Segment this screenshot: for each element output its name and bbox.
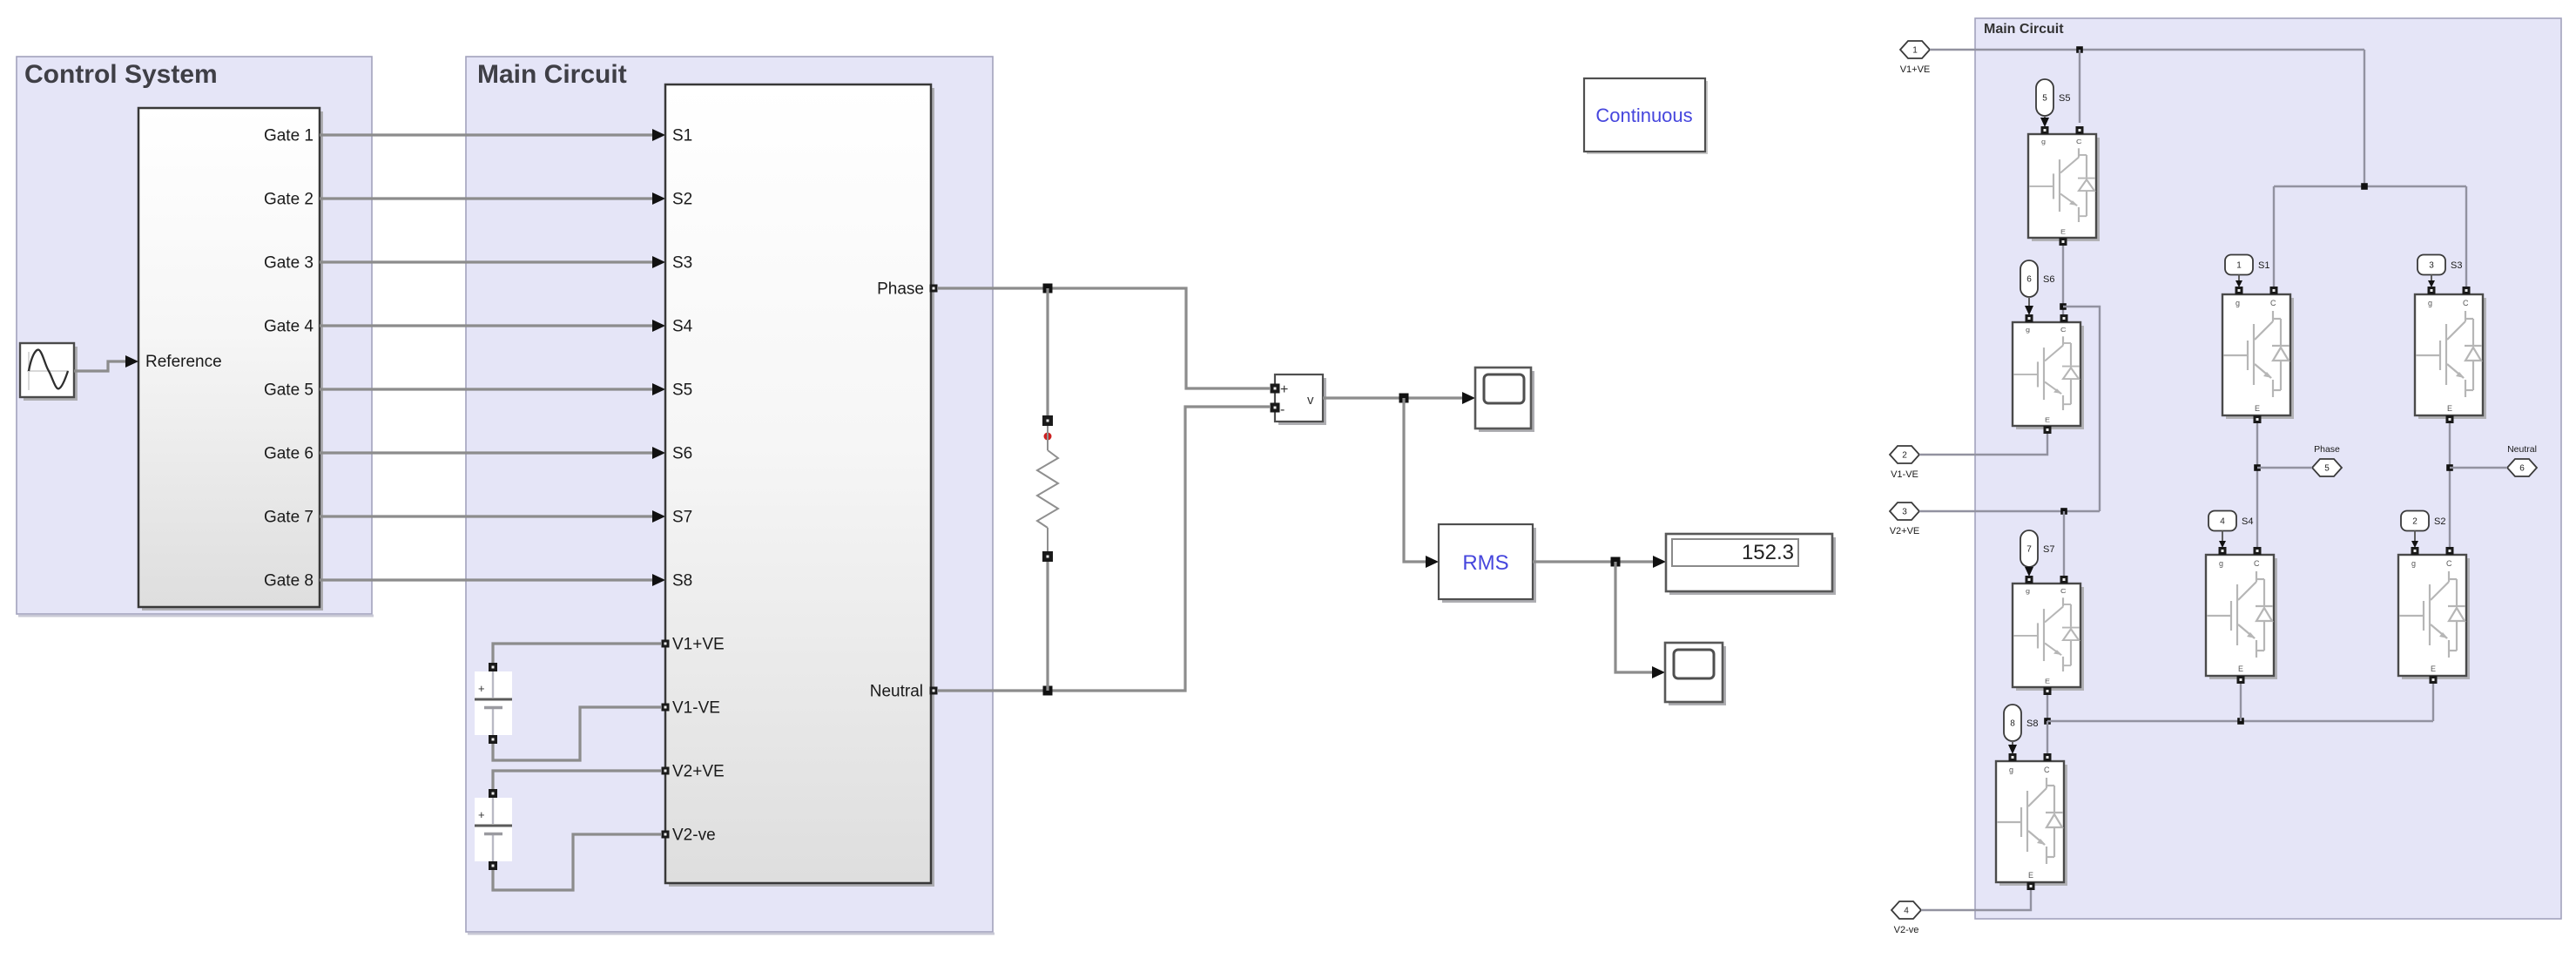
inport: 1 V1+VE [1900, 41, 1930, 58]
wire: Phase to Voltage Measurement + [938, 288, 1270, 388]
port: Voltage Measurement + [1271, 384, 1280, 394]
wire: gate inport to S1 g [2238, 275, 2240, 286]
container: Main Circuit area (right, subsystem contents) [1975, 18, 2561, 919]
transistor block: IGBT/Diode S7 [2013, 584, 2084, 691]
container: Control System area [17, 57, 374, 617]
svg-text:Main Circuit: Main Circuit [1984, 22, 2064, 37]
svg-text:7: 7 [2026, 545, 2032, 555]
svg-text:152.3: 152.3 [1742, 541, 1794, 564]
wire: gate inport to S5 g [2044, 116, 2046, 118]
svg-text:S2: S2 [2434, 516, 2445, 527]
arrowhead: S7 input port [652, 510, 665, 523]
port: S3 collector C [2463, 287, 2471, 294]
wire: Gate 2 to S2 [320, 197, 655, 199]
wire: Gate 3 to S3 [320, 260, 655, 263]
svg-text:Neutral: Neutral [870, 683, 923, 701]
svg-text:V1-VE: V1-VE [672, 699, 720, 718]
wire: S7 E down [2047, 695, 2048, 721]
block: RMS U4 [1439, 524, 1536, 603]
meter: Voltage Measurement U3 [1275, 374, 1326, 425]
svg-text:Continuous: Continuous [1595, 105, 1692, 126]
svg-text:4: 4 [1904, 907, 1909, 916]
junction: S5-S6 node [2060, 303, 2067, 310]
wire: S2 E drop [2432, 684, 2434, 721]
svg-text:1: 1 [2236, 261, 2242, 271]
svg-text:Gate 1: Gate 1 [264, 127, 314, 145]
wire: S8 E to V2-ve [1921, 890, 2031, 910]
svg-text:3: 3 [2429, 261, 2434, 271]
wire: S6 E to V1-VE [1919, 434, 2047, 455]
svg-text:S6: S6 [2043, 274, 2054, 285]
marker: unconnected-node red dot [1044, 433, 1052, 441]
svg-text:5: 5 [2042, 94, 2047, 104]
transistor block: IGBT/Diode S3 [2415, 294, 2486, 419]
inport: 2 V1-VE [1890, 446, 1919, 463]
port: S4 collector C [2254, 547, 2262, 555]
svg-text:Gate 4: Gate 4 [264, 318, 314, 336]
svg-text:S8: S8 [2026, 718, 2038, 729]
svg-text:Gate 2: Gate 2 [264, 191, 314, 209]
wire: S5 E to S6 C [2062, 246, 2064, 314]
inport: 7 gate S7 [2020, 530, 2038, 567]
wire: V1- to V1-VE [493, 707, 661, 760]
transistor block: IGBT/Diode S5 [2028, 134, 2100, 241]
arrowhead: Reference input port [125, 355, 138, 368]
port: S7 collector C [2060, 576, 2068, 584]
port: S5 emitter E [2060, 238, 2067, 246]
arrowhead: S4 gate [2219, 541, 2226, 548]
wire: Voltage Measurement to Scope1 [1323, 396, 1470, 399]
inport: 5 gate S5 [2036, 79, 2053, 116]
port: S8 gate g [2009, 753, 2017, 761]
port: Neutral output [930, 687, 938, 695]
svg-text:S2: S2 [672, 191, 692, 209]
wire: voltage node to RMS input [1404, 398, 1433, 562]
svg-text:S5: S5 [2059, 93, 2070, 104]
wire: upper bus down to S1 C [2273, 186, 2275, 287]
block: Main Circuit subsystem U2 [665, 84, 934, 887]
svg-text:2: 2 [2412, 517, 2418, 527]
inport: 6 gate S6 [2020, 260, 2038, 297]
arrowhead: S7 gate [2025, 567, 2033, 577]
svg-text:6: 6 [2026, 275, 2032, 285]
svg-text:S7: S7 [2043, 544, 2054, 555]
arrowhead: Scope2 input [1652, 666, 1665, 678]
wire: S3 E to S2 C [2449, 423, 2451, 547]
wire: Gate 8 to S8 [320, 578, 655, 581]
svg-text:Reference: Reference [145, 353, 222, 371]
junction: measured voltage node [1399, 394, 1409, 403]
arrowhead: S1 gate [2235, 280, 2242, 287]
svg-text:V2+VE: V2+VE [1890, 526, 1920, 536]
transistor block: IGBT/Diode S8 [1996, 761, 2067, 886]
transistor block: IGBT/Diode S6 [2013, 322, 2084, 429]
inport: 8 gate S8 [2004, 705, 2021, 741]
wire: Sine Wave to Reference input [74, 361, 131, 371]
svg-text:Neutral: Neutral [2507, 444, 2537, 455]
arrowhead: Scope1 input [1462, 392, 1475, 404]
svg-text:S3: S3 [672, 254, 692, 273]
port: V1+VE input port [662, 640, 670, 648]
outport: 5 Phase [2312, 459, 2342, 476]
svg-text:Control System: Control System [24, 60, 218, 89]
arrowhead: S3 gate [2428, 280, 2435, 287]
port: S6 gate g [2026, 314, 2033, 322]
wire: Phase node to Phase outport [2257, 467, 2312, 469]
port: S6 collector C [2060, 314, 2068, 322]
svg-text:S3: S3 [2451, 260, 2462, 271]
port: S8 emitter E [2027, 882, 2035, 890]
port: S1 emitter E [2254, 415, 2262, 423]
svg-text:Gate 6: Gate 6 [264, 445, 314, 463]
port: S5 gate g [2041, 126, 2049, 134]
wire: V2- to V2-ve [493, 834, 661, 890]
svg-text:V2+VE: V2+VE [672, 763, 725, 781]
wire: gate inport to S7 g [2028, 566, 2030, 568]
wire: Gate 6 to S6 [320, 451, 655, 454]
wire: Gate 5 to S5 [320, 388, 655, 390]
svg-text:S7: S7 [672, 509, 692, 527]
port: S2 emitter E [2430, 676, 2438, 684]
wire: Gate 4 to S4 [320, 324, 655, 327]
arrowhead: S5 gate [2040, 118, 2049, 127]
arrowhead: S6 gate [2025, 306, 2033, 315]
svg-text:S4: S4 [672, 318, 693, 336]
port: S7 gate g [2026, 576, 2033, 584]
wire: resistor R1 bottom to Neutral node [1046, 562, 1049, 691]
transistor block: IGBT/Diode S1 [2222, 294, 2294, 419]
inport: 2 gate S2 [2401, 511, 2429, 531]
transistor block: IGBT/Diode S2 [2398, 555, 2470, 679]
wire: V2+VE rail [1919, 510, 2100, 512]
wire: gate inport to S4 g [2222, 531, 2223, 546]
junction: rail meets upper bus [2361, 183, 2368, 190]
wire: RMS output node to Scope2 [1615, 562, 1660, 672]
svg-text:8: 8 [2010, 719, 2015, 729]
svg-text:5: 5 [2324, 464, 2330, 474]
svg-text:V2-ve: V2-ve [672, 826, 716, 845]
port: V2-ve input port [662, 831, 670, 839]
port: Phase output [930, 285, 938, 293]
svg-text:S5: S5 [672, 381, 692, 400]
source: Sine Wave [20, 343, 78, 401]
arrowhead: S3 input port [652, 256, 665, 268]
junction: V1+VE at S5 collector [2076, 46, 2083, 53]
wire: gate inport to S6 g [2028, 297, 2030, 306]
outport: 6 Neutral [2507, 459, 2537, 476]
port: V2 - terminal [489, 861, 497, 870]
svg-text:3: 3 [1902, 508, 1907, 517]
port: Voltage Measurement - [1271, 403, 1280, 413]
svg-text:Phase: Phase [2314, 444, 2340, 455]
wire: S4 E drop [2240, 684, 2242, 721]
arrowhead: S2 input port [652, 192, 665, 205]
svg-text:4: 4 [2220, 517, 2225, 527]
port: S4 emitter E [2237, 676, 2245, 684]
wire: Neutral node to Neutral outport [2450, 467, 2507, 469]
wire: V1+ to V1+VE [493, 644, 661, 663]
arrowhead: Display input [1653, 556, 1666, 568]
wire: Neutral to Voltage Measurement - [938, 407, 1270, 691]
annotation: Continuous (powergui) [1584, 78, 1708, 154]
svg-text:v: v [1307, 393, 1314, 408]
junction: S7 E bus node [2044, 718, 2051, 725]
port: S2 collector C [2446, 547, 2454, 555]
wire: V1+VE rail [1930, 49, 2364, 51]
svg-text:S4: S4 [2242, 516, 2253, 527]
junction: Neutral node [1043, 686, 1053, 696]
arrowhead: S4 input port [652, 320, 665, 332]
arrowhead: RMS input [1426, 556, 1439, 568]
wire: rail drop to upper bus [2364, 50, 2365, 186]
port: V1 - terminal [489, 735, 497, 744]
port: resistor R1 bottom terminal [1042, 551, 1053, 562]
source: DC Voltage Source V1 [475, 671, 512, 735]
svg-text:V1+VE: V1+VE [672, 636, 725, 654]
port: S1 gate g [2235, 287, 2243, 294]
arrowhead: S1 input port [652, 129, 665, 141]
svg-text:V1-VE: V1-VE [1891, 469, 1919, 480]
svg-text:1: 1 [1912, 46, 1918, 56]
source: DC Voltage Source V2 [475, 798, 512, 861]
svg-text:+: + [1280, 382, 1288, 397]
wire: Gate 7 to S7 [320, 515, 655, 517]
svg-text:RMS: RMS [1462, 551, 1508, 575]
arrowhead: S6 input port [652, 447, 665, 459]
scope: Scope2 [1665, 643, 1726, 705]
transistor block: IGBT/Diode S4 [2206, 555, 2277, 679]
svg-text:Gate 8: Gate 8 [264, 572, 314, 590]
svg-text:V1+VE: V1+VE [1900, 64, 1931, 75]
arrowhead: S8 input port [652, 574, 665, 586]
container: Main Circuit area (left) [466, 57, 995, 935]
port: S4 gate g [2219, 547, 2227, 555]
svg-text:Gate 5: Gate 5 [264, 381, 314, 400]
inport: 3 V2+VE [1890, 503, 1919, 520]
port: V2 + terminal [489, 789, 497, 798]
wire: down to S5 C [2079, 50, 2080, 123]
wire: gate inport to S8 g [2012, 741, 2013, 745]
port: resistor R1 top terminal [1042, 415, 1053, 426]
display: Display (152.3) [1666, 534, 1836, 595]
wire: RMS output to Display [1533, 560, 1660, 563]
inport: 1 gate S1 [2225, 255, 2253, 275]
junction: V2+VE at S7 collector [2060, 508, 2067, 515]
port: S2 gate g [2411, 547, 2419, 555]
port: S1 collector C [2270, 287, 2278, 294]
wire: Phase node to resistor R1 top [1046, 288, 1049, 415]
block: Reference subsystem U1 [138, 108, 323, 611]
junction: Phase node [1043, 284, 1053, 293]
port: S6 emitter E [2044, 426, 2052, 434]
junction: Phase node (right) [2254, 464, 2261, 471]
scope: Scope1 [1475, 368, 1534, 432]
junction: Neutral node (right) [2446, 464, 2453, 471]
wire: node down to S8 C [2047, 721, 2048, 753]
svg-text:2: 2 [1902, 451, 1907, 461]
port: S3 gate g [2428, 287, 2436, 294]
svg-text:+: + [478, 808, 485, 821]
wire: V2+ to V2+VE [493, 771, 661, 789]
port: S7 emitter E [2044, 687, 2052, 695]
port: V1-VE input port [662, 704, 670, 712]
wire: gate inport to S3 g [2431, 275, 2432, 286]
junction: S4 E on lower bus [2237, 718, 2244, 725]
svg-text:S1: S1 [2258, 260, 2269, 271]
svg-text:S1: S1 [672, 127, 692, 145]
wire: S5-S6 node over to V2+VE rail [2063, 307, 2100, 511]
arrowhead: S5 input port [652, 383, 665, 395]
wire: S1 E to S4 C [2256, 423, 2258, 547]
svg-text:Gate 7: Gate 7 [264, 509, 314, 527]
inport: 3 gate S3 [2418, 255, 2445, 275]
port: S5 collector C [2076, 126, 2084, 134]
svg-text:Phase: Phase [877, 280, 924, 299]
svg-text:Main Circuit: Main Circuit [477, 60, 627, 89]
inport: 4 gate S4 [2208, 511, 2236, 531]
inport: 4 V2-ve [1892, 901, 1921, 919]
svg-text:-: - [1280, 402, 1285, 417]
svg-text:6: 6 [2519, 464, 2525, 474]
svg-text:+: + [478, 682, 485, 695]
svg-text:S8: S8 [672, 572, 692, 590]
svg-text:V2-ve: V2-ve [1894, 925, 1919, 935]
junction: RMS output node [1611, 557, 1621, 567]
port: V2+VE input port [662, 767, 670, 775]
resistor R1 [1037, 426, 1058, 551]
port: S8 collector C [2044, 753, 2052, 761]
svg-text:Gate 3: Gate 3 [264, 254, 314, 273]
svg-text:S6: S6 [672, 445, 692, 463]
port: V1 + terminal [489, 663, 497, 671]
wire: upper bus down to S3 C [2465, 186, 2467, 287]
port: S3 emitter E [2446, 415, 2454, 423]
wire: lower emitter bus [2047, 720, 2433, 722]
wire: down to S7 C [2063, 511, 2065, 576]
wire: upper bus S1-S3 [2274, 186, 2466, 187]
wire: Gate 1 to S1 [320, 133, 655, 136]
wire: gate inport to S2 g [2414, 531, 2416, 546]
arrowhead: S8 gate [2008, 745, 2017, 754]
arrowhead: S2 gate [2411, 541, 2418, 548]
